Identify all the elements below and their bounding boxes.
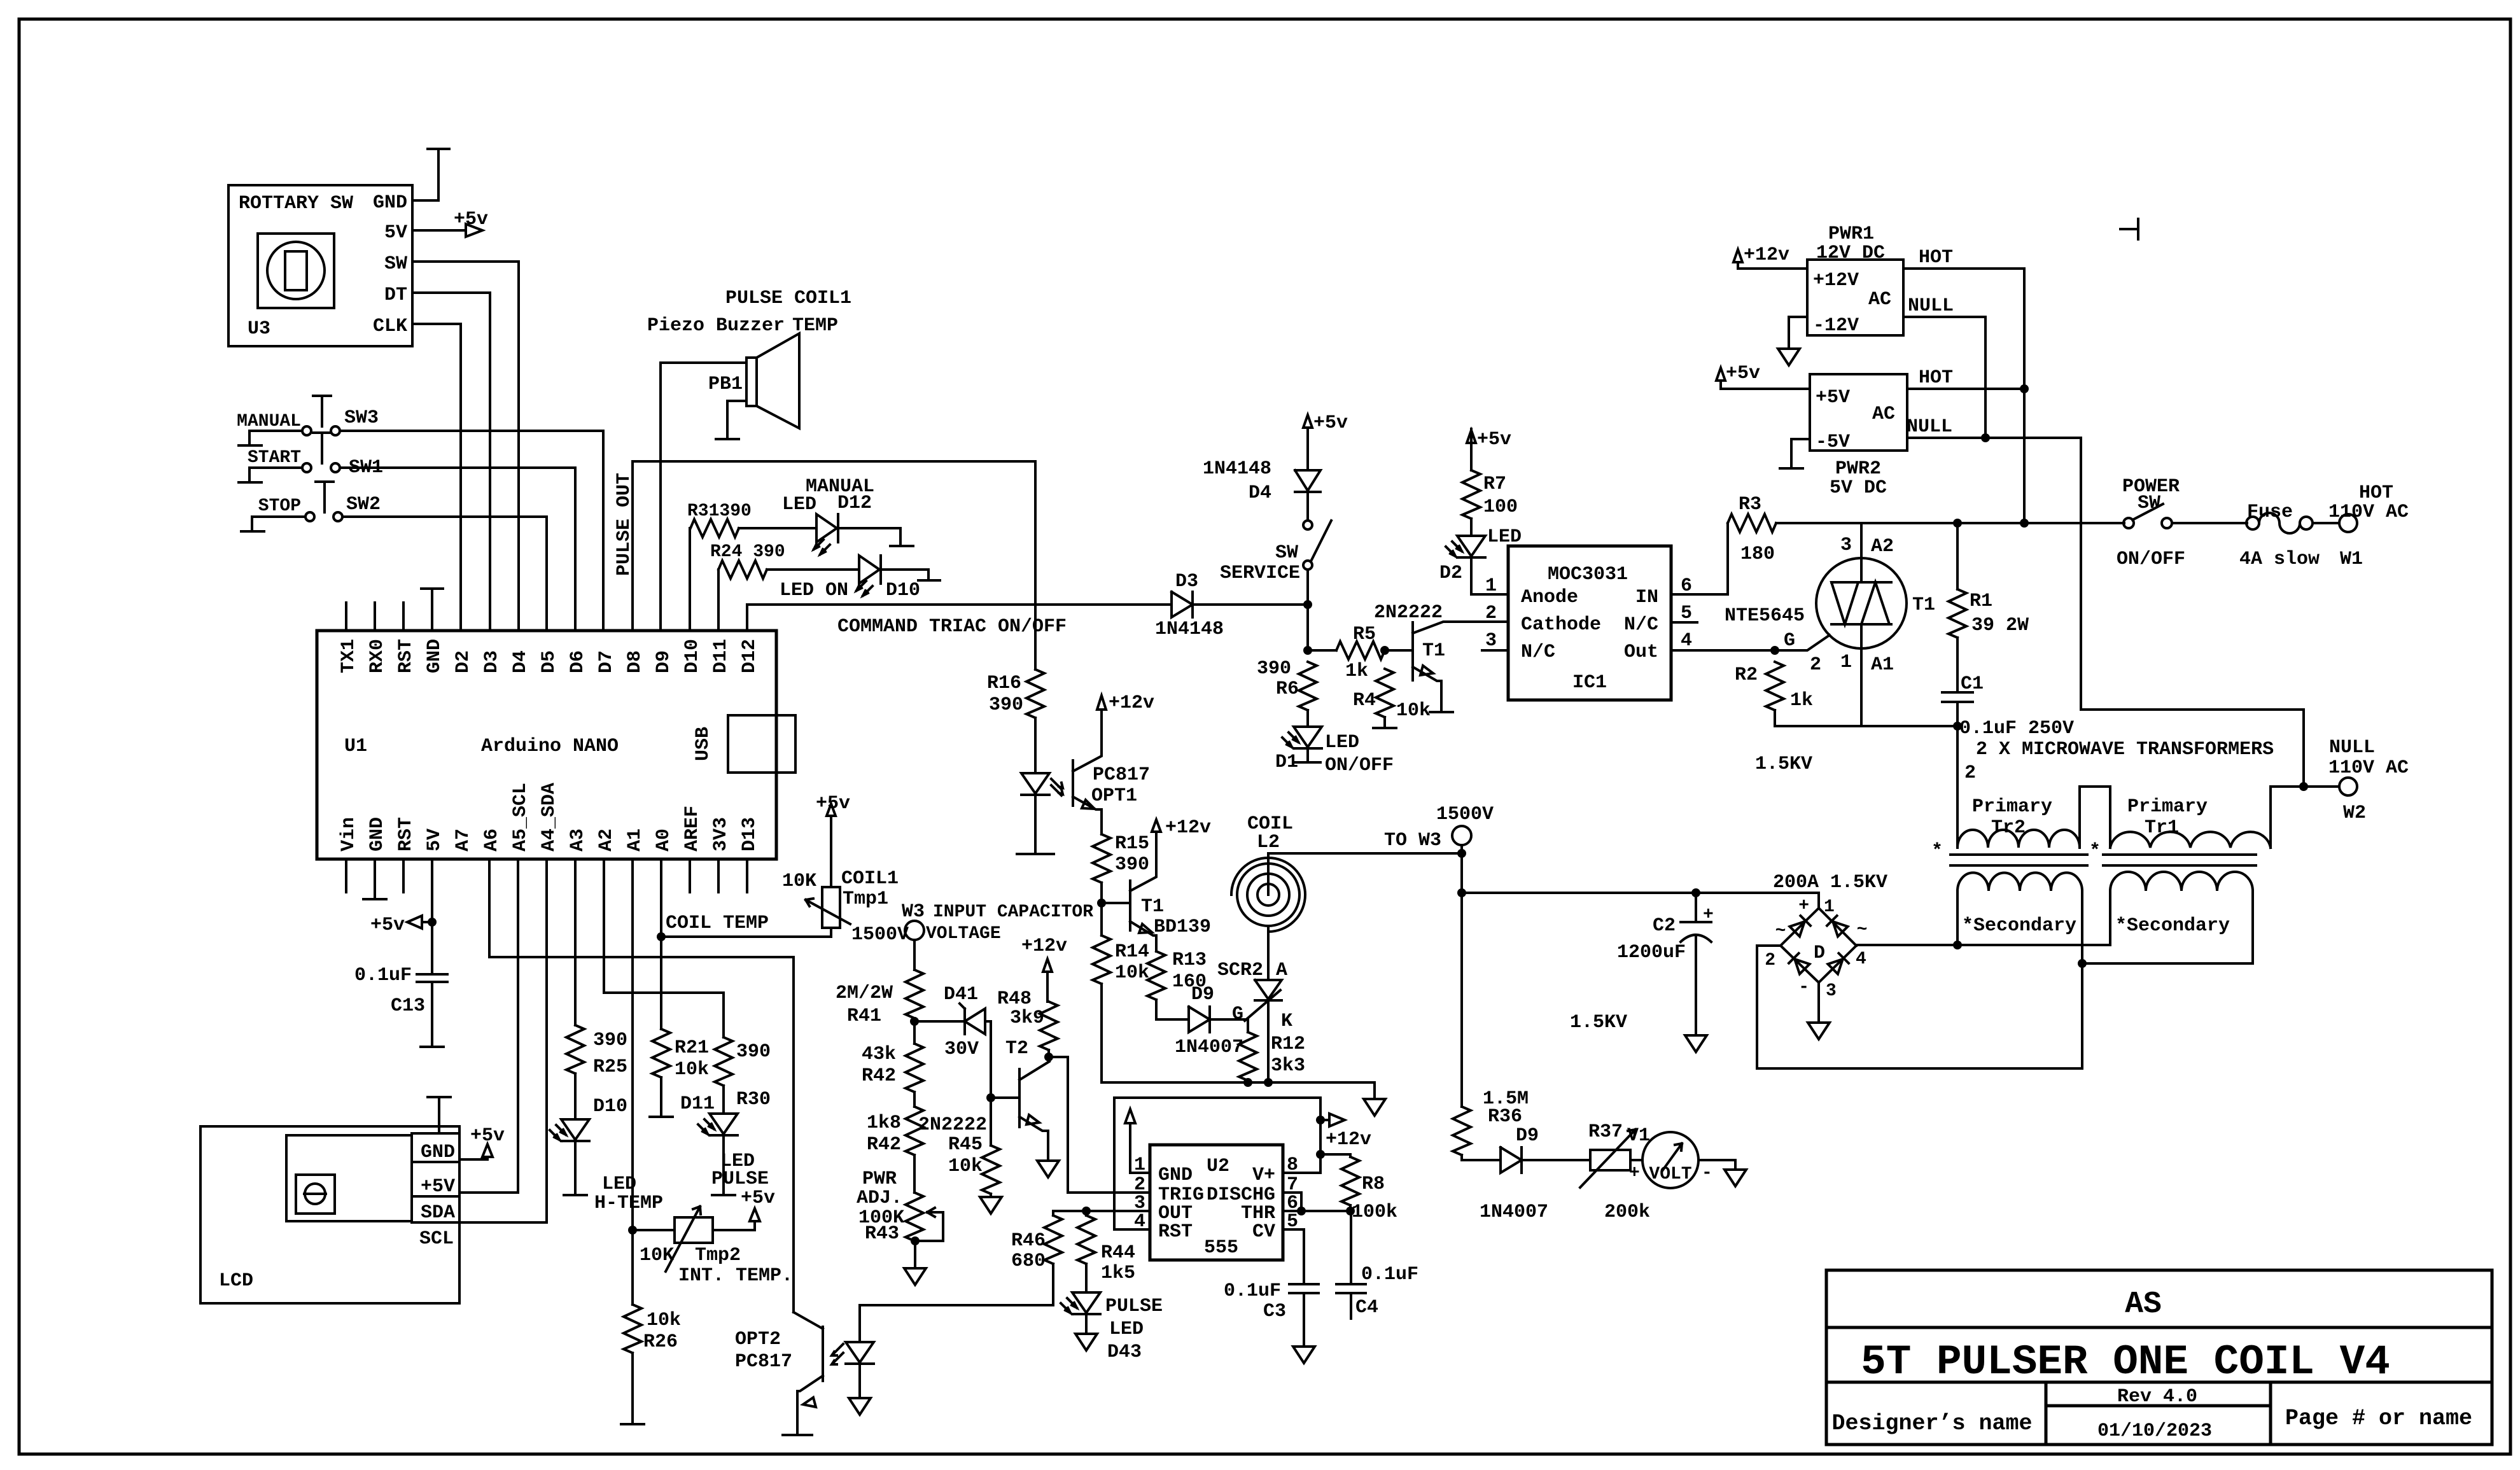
resistor R25 (566, 1025, 627, 1078)
wire A3 (574, 859, 577, 1025)
svg-text:+: + (1703, 905, 1714, 925)
svg-text:LED: LED (1325, 732, 1359, 753)
svg-text:R42: R42 (862, 1065, 896, 1087)
wire pin4 Out to gate (1671, 635, 1830, 650)
svg-text:+5v: +5v (370, 914, 405, 936)
svg-text:2 X MICROWAVE TRANSFORMERS: 2 X MICROWAVE TRANSFORMERS (1976, 739, 2274, 760)
svg-text:R7: R7 (1483, 473, 1506, 495)
wire 5V pin (431, 859, 433, 974)
wire TRIG (1068, 1191, 1150, 1194)
svg-text:D4: D4 (1249, 482, 1271, 504)
svg-text:+5v: +5v (1726, 363, 1760, 384)
resistor R3 180 (1728, 494, 1776, 565)
svg-text:A2: A2 (596, 829, 617, 851)
svg-text:A3: A3 (567, 829, 589, 851)
resistor R8 100k (1320, 1154, 1397, 1223)
svg-text:HOT: HOT (1919, 247, 1953, 269)
svg-text:T1: T1 (1422, 640, 1445, 662)
wire R2/A1/C1 bottom rail (1775, 725, 1957, 727)
wire D8 rail (633, 461, 1035, 631)
svg-text:LED: LED (602, 1173, 636, 1195)
svg-text:LED ON: LED ON (780, 580, 848, 601)
svg-text:R26: R26 (643, 1331, 678, 1353)
svg-text:COIL TEMP: COIL TEMP (666, 913, 769, 934)
svg-text:3k9: 3k9 (1010, 1007, 1044, 1029)
svg-text:2N2222: 2N2222 (918, 1114, 987, 1136)
optotriac IC1 MOC3031 (1485, 546, 1692, 700)
resistor R30 (715, 1037, 771, 1110)
svg-text:D3: D3 (481, 650, 503, 673)
svg-text:~: ~ (1857, 920, 1868, 940)
svg-text:1: 1 (1840, 652, 1852, 673)
svg-text:PWR1: PWR1 (1828, 223, 1874, 245)
svg-text:+5v: +5v (1313, 412, 1348, 434)
svg-text:IC1: IC1 (1572, 672, 1607, 694)
wire PWR2 HOT (1907, 388, 2024, 390)
svg-text:R36: R36 (1488, 1106, 1522, 1128)
svg-text:R1: R1 (1970, 591, 1992, 612)
switch POWER SW ON/OFF (2024, 476, 2185, 570)
wire 555 RST/V+ +12v (1114, 1098, 1320, 1229)
svg-text:D11: D11 (680, 1093, 715, 1115)
capacitor C13 (354, 965, 447, 1047)
+5v arrow PWR2 (1716, 363, 1810, 389)
svg-text:W3: W3 (902, 901, 925, 923)
zener D41 30V (914, 984, 991, 1089)
svg-text:D9: D9 (1191, 984, 1214, 1005)
transformer Tr2 secondary (1957, 872, 2082, 963)
wire PWR2 NULL (1907, 438, 2081, 710)
svg-text:START: START (248, 448, 301, 468)
svg-text:MANUAL: MANUAL (237, 412, 301, 431)
svg-text:D11: D11 (710, 639, 732, 673)
svg-text:R3: R3 (1739, 494, 1761, 515)
svg-text:D10: D10 (682, 639, 703, 673)
resistor R15 (1093, 833, 1149, 883)
svg-text:PULSE: PULSE (711, 1168, 769, 1190)
svg-text:1k8: 1k8 (867, 1112, 901, 1134)
svg-text:0.1uF 250V: 0.1uF 250V (1959, 718, 2074, 739)
svg-text:0.1uF: 0.1uF (354, 965, 412, 986)
svg-text:U2: U2 (1207, 1156, 1229, 1177)
svg-text:R16: R16 (987, 673, 1021, 694)
svg-text:V+: V+ (1252, 1165, 1275, 1186)
wire HOT rail triac top (1776, 522, 2024, 524)
svg-text:~: ~ (1775, 921, 1786, 941)
svg-text:C13: C13 (391, 995, 425, 1017)
svg-text:2: 2 (1485, 603, 1497, 624)
svg-text:110V AC: 110V AC (2328, 757, 2409, 779)
svg-text:10K: 10K (782, 871, 816, 892)
svg-text:Page # or name: Page # or name (2285, 1406, 2472, 1431)
svg-text:4: 4 (1681, 630, 1692, 652)
wire OUT node (1053, 1210, 1150, 1212)
svg-text:D12: D12 (739, 639, 760, 673)
transistor T1 BD139 (1102, 817, 1211, 951)
svg-text:3: 3 (1826, 981, 1837, 1001)
svg-text:T2: T2 (1005, 1038, 1028, 1060)
svg-text:R14: R14 (1115, 941, 1149, 963)
wire DISCHG/THR (1283, 1193, 1350, 1211)
svg-text:Tr1: Tr1 (2145, 817, 2179, 839)
svg-text:C3: C3 (1263, 1301, 1286, 1322)
svg-text:W2: W2 (2343, 802, 2366, 824)
resistor R13 (1147, 949, 1207, 1000)
svg-text:R30: R30 (736, 1089, 771, 1110)
transformer Tr1 primary (2089, 787, 2271, 862)
capacitor C3 (1224, 1229, 1319, 1363)
bridge rectifier D 200A 1.5KV (1765, 872, 1887, 1001)
transformer Tr1 secondary (2110, 872, 2253, 963)
wire A5_SCL to LCD (459, 859, 518, 1193)
resistor R12 (1239, 1019, 1305, 1082)
svg-text:100: 100 (1483, 496, 1518, 518)
ground GND bottom (363, 859, 386, 899)
svg-text:STOP: STOP (258, 496, 301, 516)
svg-text:NTE5645: NTE5645 (1725, 605, 1805, 627)
svg-text:R15: R15 (1115, 833, 1149, 855)
svg-text:RST: RST (395, 639, 417, 673)
svg-text:A0: A0 (653, 829, 675, 851)
wire bridge pin4 (1855, 945, 1858, 946)
svg-text:R44: R44 (1101, 1242, 1135, 1264)
svg-text:A1: A1 (1871, 654, 1894, 676)
wire COIL TEMP (661, 935, 831, 938)
potentiometer R43 100K PWR ADJ (857, 1155, 943, 1285)
svg-text:SW: SW (384, 253, 407, 275)
svg-text:555: 555 (1204, 1237, 1238, 1259)
svg-text:A2: A2 (1871, 536, 1894, 557)
+12v arrow PWR1 (1733, 244, 1807, 269)
svg-text:*Secondary: *Secondary (1962, 915, 2076, 937)
svg-text:Tmp1: Tmp1 (843, 888, 888, 910)
svg-text:LED: LED (782, 494, 816, 515)
svg-text:+12v: +12v (1744, 244, 1789, 266)
title block (1826, 1270, 2492, 1445)
svg-text:C1: C1 (1961, 673, 1984, 695)
svg-text:N/C: N/C (1624, 614, 1658, 636)
svg-text:2N2222: 2N2222 (1374, 602, 1443, 624)
svg-text:*: * (2089, 841, 2101, 862)
svg-text:CV: CV (1252, 1221, 1275, 1243)
svg-text:D8: D8 (624, 650, 646, 673)
resistor R46 680 (860, 1211, 1062, 1305)
svg-text:TO W3: TO W3 (1384, 830, 1441, 851)
potentiometer Tmp1 COIL1 (782, 793, 899, 937)
svg-text:390: 390 (1115, 854, 1149, 876)
svg-text:ON/OFF: ON/OFF (2117, 549, 2185, 570)
wire PB1 to D9 (659, 363, 662, 631)
svg-text:INPUT CAPACITOR: INPUT CAPACITOR (933, 902, 1093, 922)
svg-text:1k: 1k (1345, 661, 1368, 682)
svg-text:1.5KV: 1.5KV (1570, 1012, 1627, 1033)
svg-text:G: G (1784, 630, 1795, 652)
diode D9 1N4007 meter (1462, 1125, 1590, 1223)
LED D11 PULSE (680, 1086, 769, 1195)
svg-text:1N4007: 1N4007 (1175, 1037, 1243, 1058)
svg-text:AC: AC (1868, 289, 1891, 311)
svg-text:100k: 100k (1352, 1201, 1397, 1223)
svg-text:D13: D13 (739, 817, 760, 851)
ground bridge pin3 (1817, 983, 1820, 1023)
svg-text:K: K (1281, 1011, 1292, 1032)
svg-text:C2: C2 (1653, 915, 1676, 937)
svg-text:D9: D9 (653, 650, 675, 673)
opto OPT1 PC817 transistor (1073, 692, 1154, 834)
svg-text:W1: W1 (2340, 549, 2363, 570)
wire D8 riser down (1034, 461, 1037, 669)
svg-text:390: 390 (989, 694, 1023, 716)
pushbutton SW2 STOP (241, 482, 547, 631)
coil L2 (1231, 813, 1305, 934)
svg-text:D1: D1 (1275, 752, 1298, 773)
svg-text:680: 680 (1011, 1250, 1046, 1272)
resistor R14 (1093, 903, 1149, 984)
svg-text:4: 4 (1856, 949, 1866, 969)
svg-text:1500V: 1500V (851, 924, 909, 946)
top stubs TX1 RX0 RST (346, 603, 403, 631)
svg-text:AC: AC (1872, 403, 1895, 425)
triac T1 NTE5645 (1725, 523, 1935, 775)
svg-text:H-TEMP: H-TEMP (594, 1193, 663, 1214)
svg-text:2: 2 (1765, 951, 1775, 970)
svg-text:R21: R21 (675, 1037, 709, 1059)
svg-text:10K: 10K (640, 1245, 674, 1266)
svg-text:R43: R43 (865, 1223, 899, 1245)
svg-text:PC817: PC817 (735, 1351, 792, 1373)
thyristor SCR2 (1217, 934, 1292, 1082)
resistor R44 1k5 (1077, 1211, 1135, 1292)
svg-text:200A 1.5KV: 200A 1.5KV (1773, 872, 1887, 893)
ground rail SCR cathode (1102, 984, 1375, 1099)
svg-text:D10: D10 (593, 1096, 627, 1117)
svg-text:Primary: Primary (2127, 796, 2208, 818)
LED D2 with R7 (1439, 429, 1522, 594)
svg-text:DT: DT (384, 284, 407, 306)
transformer Tr2 primary (1931, 787, 2110, 862)
svg-text:SERVICE: SERVICE (1220, 563, 1300, 584)
svg-text:NULL: NULL (2329, 737, 2375, 759)
svg-text:D6: D6 (567, 650, 589, 673)
resistor R2 1k (1735, 654, 1821, 726)
svg-text:0.1uF: 0.1uF (1361, 1264, 1418, 1285)
power supply PWR1 12V DC (1807, 223, 1903, 337)
svg-text:4A slow: 4A slow (2239, 549, 2320, 570)
svg-text:3k3: 3k3 (1271, 1055, 1305, 1077)
svg-text:HOT: HOT (2359, 482, 2393, 504)
svg-text:D4: D4 (510, 650, 531, 673)
svg-text:Piezo Buzzer: Piezo Buzzer (647, 315, 785, 337)
svg-text:BD139: BD139 (1154, 916, 1211, 938)
LED D43 PULSE (1061, 1292, 1163, 1363)
svg-text:LED: LED (1109, 1319, 1144, 1340)
svg-text:+5v: +5v (1477, 429, 1511, 451)
svg-text:5V: 5V (384, 222, 407, 244)
svg-text:R42: R42 (867, 1134, 901, 1156)
svg-text:Arduino NANO: Arduino NANO (481, 736, 619, 757)
capacitor C2 1200uF (1570, 893, 1714, 1052)
resistor R36 1.5M (1453, 893, 1529, 1155)
svg-text:TX1: TX1 (338, 639, 360, 673)
svg-text:D: D (1814, 942, 1825, 964)
svg-text:43k: 43k (862, 1044, 896, 1065)
svg-text:+5v: +5v (470, 1125, 505, 1147)
node +5v feed (428, 918, 437, 927)
ground PWR2 -5V (1780, 439, 1810, 468)
svg-text:1N4148: 1N4148 (1155, 619, 1224, 640)
svg-text:D43: D43 (1107, 1341, 1142, 1363)
Arduino NANO U1 (317, 631, 795, 859)
transistor T2 2N2222 (918, 1038, 1059, 1177)
svg-text:D41: D41 (944, 984, 978, 1005)
resistor R31 (687, 501, 752, 631)
svg-text:MOC3031: MOC3031 (1548, 564, 1628, 585)
wire pin6 IN to R3 (1671, 523, 1728, 594)
svg-text:+5V: +5V (421, 1176, 455, 1198)
svg-text:R12: R12 (1271, 1033, 1305, 1055)
svg-text:PWR2: PWR2 (1835, 458, 1881, 480)
svg-text:110V AC: 110V AC (2328, 501, 2409, 523)
svg-text:PULSE: PULSE (1105, 1296, 1163, 1317)
svg-text:D2: D2 (452, 650, 474, 673)
svg-text:VOLTAGE: VOLTAGE (926, 924, 1001, 944)
LCD module (200, 1126, 459, 1303)
wire C1 to Tr2 primary (1956, 726, 1959, 848)
svg-text:C4: C4 (1355, 1297, 1378, 1319)
svg-text:R4: R4 (1353, 690, 1376, 711)
svg-text:L2: L2 (1257, 832, 1280, 853)
svg-text:USB: USB (692, 727, 714, 761)
svg-text:D2: D2 (1439, 563, 1462, 584)
svg-text:COMMAND TRIAC ON/OFF: COMMAND TRIAC ON/OFF (837, 616, 1067, 638)
svg-text:1N4007: 1N4007 (1480, 1201, 1548, 1223)
svg-text:R5: R5 (1353, 624, 1376, 645)
svg-text:+12v: +12v (1165, 817, 1211, 839)
wire SW to D4 (412, 262, 519, 631)
svg-text:1: 1 (1485, 575, 1497, 597)
svg-text:SW: SW (2138, 493, 2160, 514)
svg-text:1k5: 1k5 (1101, 1263, 1135, 1284)
svg-text:Designer’s name: Designer’s name (1831, 1411, 2032, 1436)
svg-text:Tr2: Tr2 (1991, 817, 2026, 839)
svg-text:PULSE COIL1: PULSE COIL1 (725, 288, 851, 309)
svg-text:R13: R13 (1172, 949, 1207, 971)
potentiometer R37 200k (1580, 1121, 1650, 1223)
resistor R16 (987, 669, 1044, 718)
ground LCD top (428, 1097, 451, 1133)
piezo buzzer PB1 (647, 288, 851, 439)
svg-text:2M/2W: 2M/2W (836, 983, 893, 1004)
wire PWR1 NULL (1903, 317, 1985, 438)
svg-text:Vin: Vin (338, 817, 360, 851)
voltmeter V1 (1627, 1125, 1746, 1188)
transistor T1 2N2222 (1374, 602, 1508, 712)
wire secondary to bridge ac2 (1757, 963, 2082, 1068)
resistor R42 43k (862, 1044, 923, 1092)
svg-text:390: 390 (1257, 658, 1291, 680)
svg-text:+12V: +12V (1813, 270, 1859, 291)
wire A6 to OPT2 collector (489, 859, 794, 1312)
opto OPT2 PC817 transistor (735, 1312, 823, 1435)
wire CLK to D2 (412, 324, 461, 631)
svg-text:GND: GND (1158, 1165, 1193, 1186)
svg-text:1k: 1k (1790, 690, 1813, 711)
svg-text:COIL1: COIL1 (841, 868, 899, 890)
ground U3 GND (412, 149, 449, 200)
svg-text:1N4148: 1N4148 (1203, 458, 1271, 480)
svg-text:A1: A1 (624, 829, 646, 851)
svg-text:U3: U3 (248, 318, 270, 340)
capacitor C4 (1336, 1211, 1418, 1319)
svg-text:PB1: PB1 (708, 374, 743, 395)
LED D10 LED-ON (767, 556, 940, 601)
resistor R21 (650, 1029, 709, 1117)
capacitor C1 (1942, 638, 2074, 739)
svg-text:IN: IN (1635, 587, 1658, 608)
power supply PWR2 5V DC (1810, 374, 1907, 499)
LED D12 MANUAL (739, 476, 913, 554)
svg-text:R24 390: R24 390 (710, 542, 785, 562)
wire NULL to W2 (2081, 710, 2304, 787)
svg-text:R41: R41 (847, 1005, 881, 1027)
rotary encoder U3 (228, 185, 412, 346)
svg-text:GND: GND (367, 817, 388, 851)
svg-text:0.1uF: 0.1uF (1224, 1280, 1281, 1302)
svg-text:5V: 5V (424, 829, 445, 851)
svg-text:-: - (1702, 1163, 1712, 1183)
wire bridge pin2 (1757, 946, 1781, 1068)
LED D10 H-TEMP (550, 1074, 663, 1214)
resistor R4 10k (1353, 669, 1431, 728)
svg-text:+12v: +12v (1326, 1129, 1371, 1151)
svg-text:10k: 10k (1115, 962, 1149, 984)
svg-text:Fuse: Fuse (2247, 501, 2293, 523)
wire PWR1 HOT (1903, 269, 2024, 523)
timer U2 555 (1134, 1145, 1298, 1260)
svg-text:PC817: PC817 (1093, 764, 1150, 786)
svg-text:1.5KV: 1.5KV (1755, 753, 1812, 775)
svg-text:D5: D5 (538, 650, 560, 673)
svg-text:NULL: NULL (1908, 295, 1954, 317)
svg-text:D7: D7 (596, 650, 617, 673)
pushbutton SW3 MANUAL (237, 396, 603, 631)
svg-text:3: 3 (1840, 535, 1852, 556)
stub pin5 N/C (1671, 621, 1697, 624)
terminal W2 NULL 110V AC (2271, 737, 2409, 824)
svg-text:39 2W: 39 2W (1971, 615, 2029, 636)
node R15/T1 base (1100, 883, 1103, 935)
node W3 INPUT CAPACITOR VOLTAGE (851, 901, 1093, 970)
svg-text:+: + (1629, 1163, 1640, 1183)
svg-text:R45: R45 (948, 1134, 983, 1156)
potentiometer Tmp2 INT TEMP (633, 1187, 793, 1287)
wire A1 to Tmp2 (631, 859, 634, 1305)
svg-text:SCR2: SCR2 (1217, 960, 1263, 981)
diode D4 1N4148 with +5v (1203, 412, 1348, 521)
svg-text:VOLT: VOLT (1649, 1165, 1691, 1184)
svg-text:A5_SCL: A5_SCL (510, 783, 531, 851)
svg-text:HOT: HOT (1919, 367, 1953, 389)
resistor R26 (621, 1305, 681, 1424)
svg-text:D3: D3 (1175, 571, 1198, 592)
node TO W3 1500V (1268, 804, 1819, 897)
svg-text:AREF: AREF (682, 806, 703, 851)
resistor R45 10k (948, 1134, 1002, 1214)
resistor R24 (710, 542, 785, 631)
diode D9 1N4007 (1156, 984, 1248, 1058)
transformer cores (1950, 855, 2256, 865)
resistor R6 390 (1257, 658, 1317, 710)
